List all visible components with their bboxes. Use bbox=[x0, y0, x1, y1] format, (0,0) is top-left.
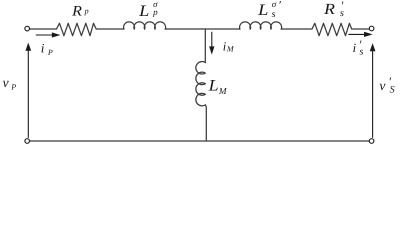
terminal bottom-right bbox=[369, 139, 374, 144]
wire center node down to L_M bbox=[204, 29, 206, 63]
svg-text:p: p bbox=[152, 7, 158, 17]
voltage arrow v_P bbox=[27, 50, 29, 138]
wire R_P to L_P bbox=[96, 28, 124, 30]
voltage arrow v_s' bbox=[372, 50, 374, 138]
resistor R_s' bbox=[312, 23, 352, 35]
bottom wire bbox=[30, 140, 369, 142]
svg-text:′: ′ bbox=[278, 0, 281, 12]
inductor L_M bbox=[196, 62, 206, 106]
terminal bottom-left bbox=[25, 139, 30, 144]
svg-text:s: s bbox=[340, 8, 344, 19]
svg-text:i: i bbox=[41, 41, 45, 56]
svg-text:M: M bbox=[218, 86, 227, 96]
svg-text:i: i bbox=[353, 41, 357, 55]
svg-text:S: S bbox=[390, 84, 395, 95]
wire top-left from terminal to R_P bbox=[30, 28, 57, 30]
current arrow i_P bbox=[36, 34, 54, 36]
svg-text:L: L bbox=[138, 3, 149, 20]
resistor R_P bbox=[57, 23, 97, 35]
wire R_s to right terminal bbox=[352, 28, 370, 30]
svg-text:R: R bbox=[71, 3, 82, 19]
current arrow i_s' bbox=[348, 33, 365, 35]
svg-text:M: M bbox=[226, 45, 235, 54]
svg-text:L: L bbox=[208, 77, 219, 94]
terminal top-left bbox=[25, 26, 30, 31]
inductor L_P^sigma bbox=[124, 22, 166, 29]
svg-text:L: L bbox=[257, 2, 268, 19]
inductor L_s^sigma' bbox=[240, 22, 282, 29]
svg-text:s: s bbox=[272, 9, 276, 20]
svg-text:P: P bbox=[47, 48, 53, 57]
svg-text:v: v bbox=[3, 75, 9, 90]
wire L_M down to bottom wire bbox=[204, 105, 207, 141]
svg-text:v: v bbox=[379, 78, 385, 93]
current arrow i_M bbox=[211, 32, 213, 48]
svg-text:σ: σ bbox=[272, 0, 277, 9]
svg-text:s: s bbox=[360, 47, 364, 58]
wire L_P to L_s (through center node) bbox=[165, 28, 240, 30]
svg-text:P: P bbox=[10, 82, 16, 91]
terminal top-right bbox=[369, 26, 374, 31]
svg-text:p: p bbox=[84, 7, 89, 16]
wire L_s to R_s bbox=[281, 28, 312, 30]
svg-text:R: R bbox=[323, 1, 336, 18]
